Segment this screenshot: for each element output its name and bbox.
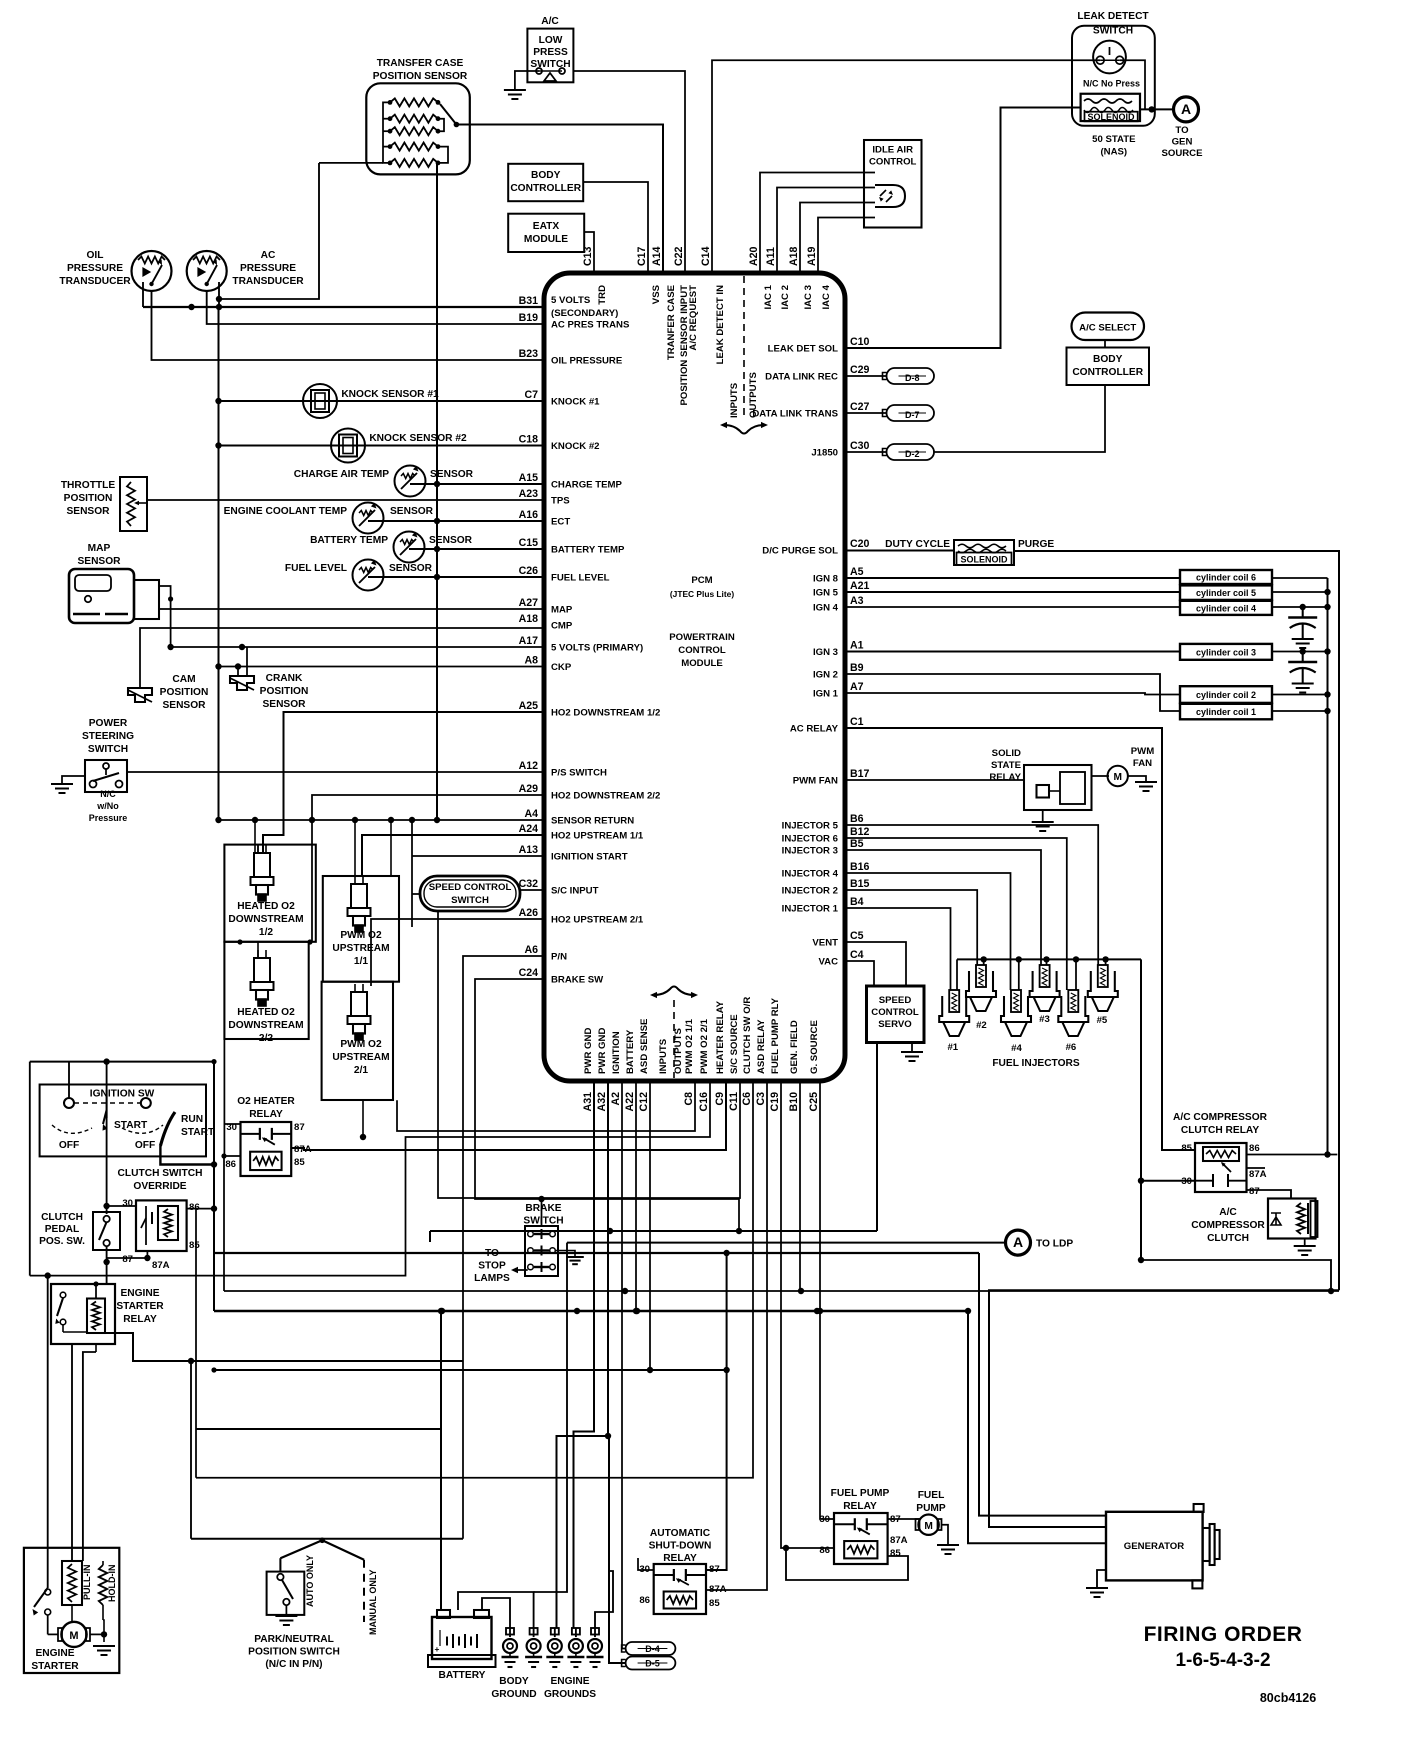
injector supply rail from ASD <box>957 958 1141 960</box>
svg-text:PRESSURE: PRESSURE <box>240 263 296 274</box>
svg-text:80cb4126: 80cb4126 <box>1260 1691 1316 1705</box>
park/neutral manual only dashed <box>363 1560 365 1622</box>
svg-text:85: 85 <box>189 1240 200 1251</box>
wire B31 5 volts secondary <box>143 306 544 308</box>
wire A/C relay 87A stub <box>1247 1167 1266 1169</box>
wire A17 5 volts primary <box>159 586 544 647</box>
body controller box (top) <box>508 164 583 201</box>
svg-text:LOW: LOW <box>539 35 563 46</box>
wire G.source to generator lead 3 <box>968 1311 1106 1543</box>
wire fuel pump relay 85 loop <box>786 1550 908 1580</box>
svg-text:RUN: RUN <box>181 1114 203 1125</box>
svg-text:A5: A5 <box>850 566 864 578</box>
svg-text:MANUAL ONLY: MANUAL ONLY <box>368 1569 378 1635</box>
svg-text:TPS: TPS <box>551 496 570 507</box>
svg-text:86: 86 <box>225 1159 236 1170</box>
wire PWM fan motor to ground <box>1127 776 1146 782</box>
svg-text:SENSOR RETURN: SENSOR RETURN <box>551 816 634 827</box>
cam position sensor <box>128 688 152 702</box>
svg-text:ENGINE: ENGINE <box>35 1648 74 1659</box>
svg-text:UPSTREAM: UPSTREAM <box>332 943 389 954</box>
svg-text:C4: C4 <box>850 949 864 961</box>
svg-text:C26: C26 <box>519 565 539 577</box>
wire cylinder coil 5 output <box>1272 591 1328 593</box>
wire ASD 30 feed <box>638 1558 654 1570</box>
PWM O2 upstream 1/1 box <box>323 876 399 982</box>
svg-text:M: M <box>924 1521 933 1532</box>
svg-text:DOWNSTREAM: DOWNSTREAM <box>228 914 303 925</box>
svg-text:CONTROLLER: CONTROLLER <box>510 183 581 194</box>
wire B9 IGN 2 to cylinder coil 1 <box>845 674 1180 711</box>
wire brake switch to ground <box>555 1251 575 1258</box>
svg-text:OFF: OFF <box>59 1140 79 1151</box>
svg-text:30: 30 <box>1181 1176 1192 1187</box>
PWM O2 upstream 2/1 sensor <box>351 992 367 1016</box>
wire generator to ground <box>1097 1570 1106 1588</box>
svg-text:B6: B6 <box>850 813 864 825</box>
svg-text:IGNITION START: IGNITION START <box>551 852 628 863</box>
A/C low press switch <box>527 29 573 83</box>
svg-text:PWM O2 2/1: PWM O2 2/1 <box>699 1018 710 1074</box>
svg-text:A3: A3 <box>850 595 864 607</box>
svg-text:ENGINE: ENGINE <box>550 1676 589 1687</box>
wire C6 clutch switch override <box>196 1081 753 1478</box>
fuel injector #5 <box>1098 965 1108 987</box>
svg-text:#5: #5 <box>1097 1015 1108 1026</box>
svg-text:PWM FAN: PWM FAN <box>793 776 838 787</box>
svg-text:IGN 5: IGN 5 <box>813 588 839 599</box>
wire override 86 to run feed <box>187 1208 196 1210</box>
knock sensor #2 <box>331 429 365 463</box>
svg-text:C6: C6 <box>741 1092 753 1106</box>
svg-text:B31: B31 <box>519 295 539 307</box>
wire A16 ECT <box>368 520 544 522</box>
wire heated O2 sensor leads to bus <box>257 845 259 853</box>
wire battery feed vertical <box>440 1311 442 1610</box>
svg-text:FAN: FAN <box>1133 758 1152 769</box>
wire transfer case feed to B31 <box>219 163 319 299</box>
wire A11 IAC 2 <box>777 188 875 274</box>
heated O2 downstream 2/2 sensor <box>254 958 270 982</box>
svg-text:86: 86 <box>639 1595 650 1606</box>
wire A1 IGN 3 to cylinder coil 3 <box>845 651 1180 653</box>
svg-text:#3: #3 <box>1039 1014 1050 1025</box>
wire leak detect switch to solenoid node <box>1120 60 1145 109</box>
svg-text:INJECTOR 6: INJECTOR 6 <box>782 834 838 845</box>
ground at generator <box>1086 1587 1108 1589</box>
wire ignition START to clutch pedal switch <box>106 1118 108 1214</box>
svg-text:ASD RELAY: ASD RELAY <box>756 1019 767 1074</box>
svg-text:1/2: 1/2 <box>259 927 273 938</box>
svg-text:THROTTLE: THROTTLE <box>61 480 116 491</box>
svg-text:TRANSDUCER: TRANSDUCER <box>59 276 131 287</box>
ground at A/C low press switch <box>504 89 526 91</box>
svg-text:A32: A32 <box>596 1092 608 1112</box>
oil pressure transducer <box>132 251 172 291</box>
svg-text:POSITION SENSOR INPUT: POSITION SENSOR INPUT <box>679 285 690 406</box>
svg-text:OUTPUTS: OUTPUTS <box>748 372 759 418</box>
svg-text:POWERTRAIN: POWERTRAIN <box>669 632 735 643</box>
ground at speed control servo <box>911 1043 913 1053</box>
ground at engine starter <box>93 1645 115 1647</box>
generator pulley <box>1203 1528 1210 1561</box>
svg-text:C25: C25 <box>808 1092 820 1112</box>
wire starter relay coil top <box>95 1284 97 1299</box>
svg-text:BATTERY TEMP: BATTERY TEMP <box>310 535 388 546</box>
transfer case position sensor resistors <box>390 98 438 106</box>
battery <box>432 1617 492 1659</box>
svg-text:GEN: GEN <box>1172 137 1193 148</box>
wire C15 battery temp <box>409 548 544 550</box>
svg-text:A/C COMPRESSOR: A/C COMPRESSOR <box>1173 1112 1268 1123</box>
svg-text:FUEL INJECTORS: FUEL INJECTORS <box>992 1058 1080 1069</box>
spark plug on coil 3 line <box>1302 652 1304 663</box>
body controller box (right) <box>1067 348 1150 386</box>
svg-text:SOURCE: SOURCE <box>1161 148 1203 159</box>
HO2 downstream 1/2 lead to sensor return <box>254 820 256 853</box>
wire A14 transfer case position sensor input <box>456 125 663 274</box>
svg-text:C27: C27 <box>850 401 870 413</box>
wire to LDP node <box>567 1242 1006 1244</box>
svg-text:A29: A29 <box>519 783 539 795</box>
svg-text:EATX: EATX <box>533 221 560 232</box>
svg-text:OUTPUTS: OUTPUTS <box>673 1028 684 1074</box>
svg-text:IAC 1: IAC 1 <box>763 284 774 309</box>
svg-text:BODY: BODY <box>1093 354 1123 365</box>
svg-text:C18: C18 <box>519 434 539 446</box>
svg-text:C29: C29 <box>850 364 870 376</box>
wire transfer case bottom to left feed <box>319 162 383 164</box>
svg-text:BODY: BODY <box>499 1676 529 1687</box>
svg-text:PWM O2: PWM O2 <box>340 1039 382 1050</box>
svg-text:A11: A11 <box>765 247 777 266</box>
ignition switch OFF arcs <box>52 1125 92 1133</box>
svg-text:HOLD-IN: HOLD-IN <box>107 1565 117 1603</box>
stop lamp feed line 1231 <box>430 1230 877 1232</box>
svg-text:CHARGE TEMP: CHARGE TEMP <box>551 480 622 491</box>
svg-text:RELAY: RELAY <box>663 1553 697 1564</box>
wire cylinder coil 6 output <box>1272 577 1328 579</box>
svg-text:INJECTOR 4: INJECTOR 4 <box>782 869 839 880</box>
brake switch <box>525 1226 558 1276</box>
wire B4 injector 1 <box>845 908 951 990</box>
svg-text:SWITCH: SWITCH <box>523 1216 563 1227</box>
svg-text:IGN 2: IGN 2 <box>813 670 838 681</box>
wire A15 charge temp <box>410 483 544 485</box>
wire A26 HO2 upstream 2/1 <box>371 919 544 986</box>
wire purge solenoid to right rail <box>1014 551 1339 1290</box>
wire park neutral feed line <box>191 1538 463 1540</box>
battery temp sensor <box>394 532 425 563</box>
svg-text:C20: C20 <box>850 538 870 550</box>
connector D-7 <box>887 405 935 421</box>
wire cylinder coil 4 output <box>1272 606 1328 608</box>
heated O2 downstream 1/2 box <box>224 845 315 942</box>
wire A5 IGN 8 to cylinder coil 6 <box>845 577 1180 579</box>
svg-text:C32: C32 <box>519 878 539 890</box>
wire override 30 to pedal feed <box>107 1205 136 1207</box>
speed control switch <box>420 876 520 911</box>
wire P/S switch to ground <box>62 776 85 784</box>
PWM O2 upstream 1/1 sensor <box>351 884 367 908</box>
wire A/C low press switch to ground <box>515 71 539 90</box>
wire A21 IGN 5 to cylinder coil 5 <box>845 591 1180 593</box>
leak detect switch box <box>1072 26 1155 126</box>
engine ground lug 4 <box>575 1628 577 1637</box>
svg-text:CRANK: CRANK <box>266 673 303 684</box>
svg-text:#1: #1 <box>947 1042 958 1053</box>
cylinder coil 2 <box>1180 686 1272 703</box>
svg-text:PWM O2 1/1: PWM O2 1/1 <box>684 1018 695 1074</box>
svg-text:HO2 DOWNSTREAM 1/2: HO2 DOWNSTREAM 1/2 <box>551 708 660 719</box>
cylinder coil 3 <box>1180 644 1272 660</box>
engine ground lug 2 <box>533 1628 535 1637</box>
svg-text:D-8: D-8 <box>905 373 920 383</box>
wire C25 g.source to fuel pump relay 30 <box>820 1081 834 1519</box>
svg-text:J1850: J1850 <box>811 448 838 459</box>
svg-text:85: 85 <box>294 1157 305 1168</box>
fuel pump motor <box>918 1515 938 1535</box>
wire C27 data link trans <box>845 412 887 414</box>
coil secondary rail <box>1327 578 1329 1156</box>
speed control servo <box>867 986 925 1043</box>
svg-text:HEATED O2: HEATED O2 <box>237 901 295 912</box>
svg-text:SWITCH: SWITCH <box>451 895 489 906</box>
feed line 1429 <box>196 1428 442 1430</box>
wire A12 P/S switch <box>127 771 544 773</box>
svg-text:S/C INPUT: S/C INPUT <box>551 886 599 897</box>
ASD rail down to A/C relay 30 <box>1140 959 1142 1260</box>
svg-text:cylinder coil 3: cylinder coil 3 <box>1196 647 1256 657</box>
wire servo to stop-lamp feed <box>876 1043 878 1232</box>
svg-text:UPSTREAM: UPSTREAM <box>332 1052 389 1063</box>
svg-text:MODULE: MODULE <box>681 658 723 669</box>
svg-text:VENT: VENT <box>812 938 838 949</box>
svg-text:S/C SOURCE: S/C SOURCE <box>729 1014 740 1074</box>
wire C12 ASD sense <box>649 1081 651 1370</box>
svg-text:CAM: CAM <box>172 674 195 685</box>
svg-text:IAC 3: IAC 3 <box>803 285 814 310</box>
ignition feed top wire <box>30 1061 216 1063</box>
svg-text:C11: C11 <box>728 1092 740 1111</box>
ground at A/C compressor clutch <box>1294 1245 1316 1247</box>
idle air control motor glyph <box>875 185 905 207</box>
svg-text:CLUTCH: CLUTCH <box>1207 1233 1249 1244</box>
svg-text:C8: C8 <box>683 1092 695 1106</box>
wire B19 AC pres trans <box>207 291 544 324</box>
svg-text:BATTERY: BATTERY <box>625 1029 636 1074</box>
svg-text:A20: A20 <box>748 246 760 266</box>
svg-text:LEAK DETECT IN: LEAK DETECT IN <box>715 285 726 364</box>
wire A13 ignition start <box>411 820 413 927</box>
svg-text:SPEED: SPEED <box>879 995 912 1006</box>
svg-text:PULL-IN: PULL-IN <box>82 1565 92 1601</box>
wire B10 gen field down <box>799 1081 801 1291</box>
svg-text:50 STATE: 50 STATE <box>1092 134 1136 145</box>
connector D-2 <box>887 444 935 460</box>
svg-text:TO: TO <box>485 1248 499 1259</box>
wire C7 knock #1 <box>219 400 545 402</box>
svg-text:HEATER RELAY: HEATER RELAY <box>715 1000 726 1074</box>
svg-text:A16: A16 <box>519 509 539 521</box>
wire override 87A junction <box>146 1251 148 1258</box>
svg-text:87A: 87A <box>152 1260 170 1271</box>
engine starter motor <box>61 1622 86 1647</box>
wire A32 pwr gnd to engine ground <box>557 1081 609 1628</box>
svg-text:PRESSURE: PRESSURE <box>67 263 123 274</box>
wire A31 pwr gnd to engine ground <box>574 1081 595 1628</box>
svg-text:A26: A26 <box>519 907 539 919</box>
svg-text:PEDAL: PEDAL <box>45 1224 80 1235</box>
svg-text:LAMPS: LAMPS <box>474 1273 510 1284</box>
svg-text:87A: 87A <box>1249 1169 1267 1180</box>
sensor bus vertical x=437 from transfer case <box>436 163 438 820</box>
svg-text:D-2: D-2 <box>905 449 920 459</box>
wire C5 vent <box>845 942 906 986</box>
clutch switch override <box>136 1200 187 1251</box>
wire right rail bottom to generator feed <box>989 1290 1339 1527</box>
body ground lug <box>509 1628 511 1637</box>
svg-text:MAP: MAP <box>88 543 111 554</box>
svg-text:C24: C24 <box>519 967 539 979</box>
svg-text:POSITION SWITCH: POSITION SWITCH <box>248 1647 340 1658</box>
wire C10 leak det sol <box>845 108 1081 349</box>
wire A4 sensor return <box>219 819 545 821</box>
svg-text:CHARGE AIR TEMP: CHARGE AIR TEMP <box>294 469 389 480</box>
svg-text:PWM: PWM <box>1131 746 1154 757</box>
svg-text:2/1: 2/1 <box>354 1065 368 1076</box>
svg-text:KNOCK SENSOR #1: KNOCK SENSOR #1 <box>341 389 439 400</box>
svg-text:BATTERY TEMP: BATTERY TEMP <box>551 545 625 556</box>
wire fuel pump to ground <box>942 1525 949 1545</box>
svg-text:M: M <box>69 1630 78 1642</box>
svg-text:#6: #6 <box>1066 1042 1077 1053</box>
node A to LDP <box>1006 1230 1031 1255</box>
svg-text:C9: C9 <box>714 1092 726 1106</box>
svg-text:86: 86 <box>189 1202 200 1213</box>
svg-text:INJECTOR 2: INJECTOR 2 <box>782 886 838 897</box>
svg-text:PARK/NEUTRAL: PARK/NEUTRAL <box>254 1634 334 1645</box>
svg-text:GENERATOR: GENERATOR <box>1124 1541 1184 1552</box>
svg-text:SENSOR: SENSOR <box>262 699 306 710</box>
leak detect switch contacts <box>1093 41 1126 74</box>
wire ignition switch feeds <box>68 1062 70 1098</box>
wire B15 injector 2 <box>845 890 977 965</box>
engine starter hold-in coil <box>99 1565 107 1605</box>
wire A3 IGN 4 to cylinder coil 4 <box>845 606 1180 608</box>
wire battery loop 2 <box>458 1592 534 1628</box>
wire C14 leak detect in <box>712 60 1100 273</box>
wire crank sensor leads <box>237 667 239 677</box>
svg-text:HEATED O2: HEATED O2 <box>237 1007 295 1018</box>
svg-text:RELAY: RELAY <box>249 1109 283 1120</box>
svg-text:IGN 1: IGN 1 <box>813 689 839 700</box>
svg-text:OIL PRESSURE: OIL PRESSURE <box>551 356 623 367</box>
svg-text:N/C No Press: N/C No Press <box>1083 79 1140 89</box>
wire O2 heater relay feed 30 <box>224 1123 240 1125</box>
wire A20 IAC 1 <box>760 173 875 274</box>
svg-text:POWER: POWER <box>89 718 128 729</box>
svg-text:C7: C7 <box>524 389 538 401</box>
svg-text:M: M <box>1113 772 1122 783</box>
svg-text:C22: C22 <box>673 246 685 266</box>
wire A6 P/N to park/neutral switch <box>463 956 544 1539</box>
svg-text:A4: A4 <box>524 808 538 820</box>
svg-text:Pressure: Pressure <box>89 813 128 823</box>
svg-text:SENSOR: SENSOR <box>66 506 110 517</box>
fuel injector #3 <box>1040 965 1050 987</box>
svg-text:C30: C30 <box>850 440 870 452</box>
wire A19 IAC 4 <box>818 218 875 274</box>
svg-text:A24: A24 <box>519 823 539 835</box>
wire B6 injector 5 <box>845 825 1098 965</box>
ignition switch RUN START lever <box>160 1112 175 1146</box>
svg-text:87: 87 <box>1249 1186 1260 1197</box>
svg-text:TRANSFER CASE: TRANSFER CASE <box>377 58 464 69</box>
ground at fuel pump <box>937 1544 959 1546</box>
svg-text:cylinder coil 1: cylinder coil 1 <box>1196 707 1256 717</box>
svg-text:GROUNDS: GROUNDS <box>544 1689 596 1700</box>
svg-text:C12: C12 <box>638 1092 650 1112</box>
wire C16 PWM O2 2/1 <box>30 1081 710 1276</box>
svg-text:CONTROL: CONTROL <box>869 157 917 168</box>
wire C17 VSS from body controller <box>583 182 648 273</box>
svg-text:KNOCK #1: KNOCK #1 <box>551 397 600 408</box>
wire solid state relay to PWM fan motor <box>1092 775 1110 777</box>
knock sensor #1 <box>303 384 337 418</box>
AC pressure transducer <box>187 251 227 291</box>
svg-text:TO LDP: TO LDP <box>1036 1239 1073 1250</box>
spark plug on coil 4 line <box>1302 607 1304 618</box>
svg-text:P/N: P/N <box>551 952 567 963</box>
wire fuel pump relay 87 to pump <box>888 1518 920 1520</box>
wire engine ground lug 5 feed <box>595 1571 613 1628</box>
feed line 1291 <box>224 1290 1339 1292</box>
svg-text:SOLID: SOLID <box>992 748 1021 759</box>
engine coolant temp sensor <box>353 503 384 534</box>
svg-text:A: A <box>1181 101 1191 117</box>
svg-text:A12: A12 <box>519 760 539 772</box>
svg-text:FUEL PUMP: FUEL PUMP <box>831 1488 890 1499</box>
generator tabs <box>1194 1504 1204 1512</box>
svg-text:G. SOURCE: G. SOURCE <box>809 1020 820 1074</box>
svg-text:SOLENOID: SOLENOID <box>1087 112 1135 122</box>
svg-text:#2: #2 <box>976 1020 987 1031</box>
svg-text:87A: 87A <box>890 1535 908 1546</box>
A/C enclosure bottom wire <box>1141 1260 1331 1291</box>
svg-text:KNOCK SENSOR #2: KNOCK SENSOR #2 <box>369 433 467 444</box>
O2 heater relay <box>241 1122 292 1176</box>
svg-text:PURGE: PURGE <box>1018 539 1054 550</box>
svg-text:B17: B17 <box>850 768 870 780</box>
sensor return bus vertical x=218.5 <box>218 307 220 820</box>
PCM bottom INPUTS OUTPUTS dashed divider <box>673 1000 675 1078</box>
svg-text:85: 85 <box>890 1548 901 1559</box>
wire A18 CMP <box>140 628 544 688</box>
wire ASD 87A <box>706 1081 767 1590</box>
throttle position sensor <box>120 477 147 531</box>
fuel pump relay <box>834 1513 888 1564</box>
heated O2 downstream 1/2 sensor <box>254 853 270 877</box>
svg-text:STEERING: STEERING <box>82 731 134 742</box>
wire A23 TPS <box>147 499 544 501</box>
wire C11 S/C source <box>438 911 740 1198</box>
svg-text:cylinder coil 6: cylinder coil 6 <box>1196 573 1256 583</box>
svg-text:PWR GND: PWR GND <box>597 1028 608 1074</box>
svg-text:CONTROL: CONTROL <box>678 645 726 656</box>
svg-text:OVERRIDE: OVERRIDE <box>133 1181 186 1192</box>
O2 heater 86 drop <box>223 1156 225 1291</box>
